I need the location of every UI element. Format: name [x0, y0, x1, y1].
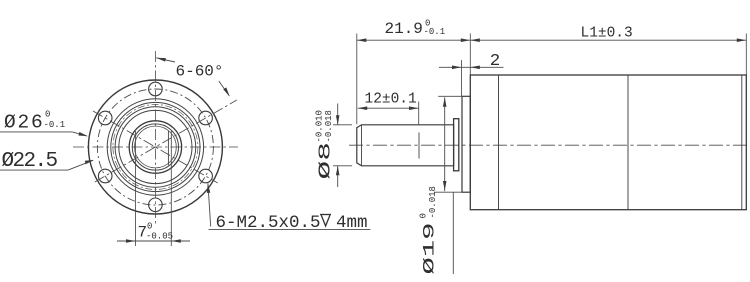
- pitch circle r42.5 (dash-dot): [113, 105, 198, 190]
- svg-text:Ø19: Ø19: [421, 223, 439, 275]
- dimension line 21.9 / L1: [357, 39, 747, 41]
- svg-text:-0.1: -0.1: [44, 120, 66, 130]
- extension line left of dim 7: [135, 131, 137, 246]
- pilot boss: [454, 119, 459, 171]
- svg-text:0: 0: [45, 110, 50, 120]
- svg-text:-0.018: -0.018: [324, 110, 334, 142]
- vertical centerline: [154, 51, 156, 225]
- svg-text:21.9: 21.9: [385, 20, 423, 38]
- boss circle r44.6: [111, 102, 200, 191]
- extension line body end: [745, 34, 747, 75]
- motor end cap line: [741, 75, 743, 210]
- bolt hole lower-right: [199, 169, 213, 183]
- arrowhead dim2 right: [470, 66, 480, 70]
- svg-text:2: 2: [490, 52, 501, 71]
- shaft circle r23.1: [132, 124, 178, 170]
- svg-text:L1±0.3: L1±0.3: [581, 26, 633, 42]
- extension line shaft tip: [356, 34, 358, 125]
- Ø19 dim top tick: [438, 95, 462, 97]
- svg-text:0: 0: [147, 222, 152, 232]
- bolt hole bottom: [149, 198, 163, 212]
- Ø19 dim bottom tick: [434, 191, 462, 193]
- bolt hole top: [149, 82, 163, 96]
- svg-text:Ø8: Ø8: [317, 142, 336, 180]
- dimension 12 line: [358, 107, 419, 109]
- arrowhead dim2 left: [452, 66, 462, 70]
- Ø19 label underline: [452, 192, 454, 274]
- angle dim 6-60 arrow at diagonal line: [219, 81, 229, 96]
- extension line body face: [469, 34, 471, 75]
- svg-text:0: 0: [419, 213, 429, 218]
- angle dim 6-60 arrow at vertical centerline: [156, 58, 175, 62]
- ring circle r40.3: [115, 107, 196, 188]
- bolt hole upper-right: [199, 111, 213, 125]
- extension line plate face (dim 2): [461, 60, 463, 96]
- svg-text:-0.05: -0.05: [146, 232, 173, 242]
- body section line 2 (gearbox/motor joint): [627, 75, 629, 210]
- Ø19 dim line vertical: [444, 97, 446, 191]
- shaft flat chord / extension line right: [170, 131, 172, 246]
- shaft chamfer circle r20.9: [135, 126, 177, 168]
- svg-text:-0.010: -0.010: [315, 110, 325, 142]
- body section line 1: [498, 75, 500, 210]
- thread callout underline: [209, 229, 371, 231]
- Ø8 dim extension ticks: [333, 124, 352, 126]
- ring circle r36.6: [119, 110, 192, 183]
- arrowhead dim7 left: [126, 239, 136, 243]
- arrowhead L1 right: [737, 38, 747, 42]
- bolt hole upper-left: [98, 111, 112, 125]
- shaft outline Ø8: [357, 125, 454, 166]
- front plate: [462, 96, 470, 192]
- bolt circle Ø22.5 (dash-dot): [97, 89, 213, 205]
- svg-text:Ø26: Ø26: [4, 112, 45, 134]
- bore circle r26.2: [129, 121, 181, 173]
- arrowhead 12 left: [358, 106, 368, 110]
- arrowhead Ø22.5: [85, 160, 94, 164]
- arrowhead dim7 right: [171, 239, 181, 243]
- arrowhead Ø26: [78, 132, 88, 136]
- shaft flat chord line short: [167, 131, 169, 165]
- label Ø8 rotated: [315, 110, 336, 179]
- bolt hole lower-left: [98, 169, 112, 183]
- shaft groove line at 12mm: [418, 133, 420, 159]
- arrowhead 21.9 left: [357, 38, 367, 42]
- dimension 2 line: [439, 66, 504, 68]
- horizontal centerline: [73, 146, 238, 148]
- svg-text:6-60°: 6-60°: [176, 63, 224, 81]
- label Ø26 leader: [0, 131, 72, 133]
- label Ø19 rotated: [419, 186, 439, 274]
- flange outer circle Ø26: [88, 80, 222, 214]
- svg-text:Ø22.5: Ø22.5: [2, 150, 58, 173]
- housing circle r48: [107, 99, 203, 195]
- label Ø22.5 leader: [0, 169, 68, 171]
- side view centerline: [349, 144, 750, 146]
- extension line for 12 dim upper: [418, 102, 420, 126]
- svg-text:12±0.1: 12±0.1: [365, 91, 417, 107]
- svg-text:4mm: 4mm: [336, 213, 368, 233]
- shaft chamfer line: [361, 125, 363, 166]
- thread callout leader 6-M2.5: [208, 183, 211, 226]
- depth symbol: [320, 214, 331, 216]
- Ø8 dim arrow lines: [337, 104, 339, 125]
- svg-text:-0.018: -0.018: [428, 186, 438, 218]
- diagonal centerline 30deg: [95, 100, 237, 182]
- dimension 7 0/-0.05 line: [117, 240, 190, 242]
- gearbox/motor body: [470, 75, 746, 210]
- svg-text:6-M2.5x0.5: 6-M2.5x0.5: [216, 213, 321, 233]
- arrowhead 21.9 right: [461, 38, 471, 42]
- diagonal centerline 150deg: [93, 111, 218, 183]
- arrowhead L1 left: [470, 38, 480, 42]
- arrowhead 12 right: [409, 106, 419, 110]
- svg-text:-0.1: -0.1: [424, 27, 446, 37]
